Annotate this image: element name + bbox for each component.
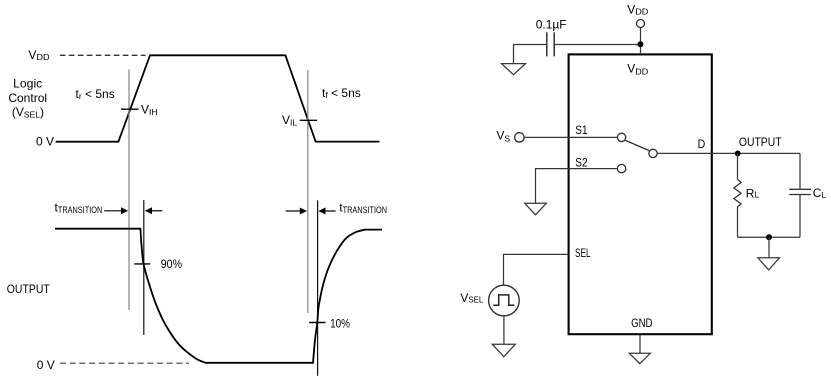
label tTRANSITION left xyxy=(55,201,103,215)
pin label S1 xyxy=(575,123,588,137)
svg-text:Logic: Logic xyxy=(13,76,42,90)
10% tick xyxy=(309,322,325,324)
wire VSEL to ground xyxy=(503,316,505,344)
bypass capacitor 0.1uF plates xyxy=(547,32,554,56)
wire GND pin to ground xyxy=(639,335,641,354)
label tf < 5ns xyxy=(322,86,361,100)
label VDD (logic high level) xyxy=(28,48,49,62)
pulse symbol inside VSEL xyxy=(493,295,514,305)
label 90% xyxy=(161,257,182,271)
svg-text:GND: GND xyxy=(631,316,653,330)
svg-text:0.1µF: 0.1µF xyxy=(536,18,567,32)
label 0 V (logic low) xyxy=(36,135,54,149)
wire S2 to ground xyxy=(536,169,618,203)
label CL xyxy=(813,186,827,200)
svg-text:OUTPUT: OUTPUT xyxy=(739,135,782,149)
tTRANSITION left arrow (pointing right) xyxy=(104,207,128,214)
VIL tick xyxy=(300,119,317,121)
label VDD (supply terminal) xyxy=(627,2,648,16)
svg-text:Control: Control xyxy=(8,91,47,105)
switch S2 throw circle xyxy=(617,164,625,172)
ground (S2) xyxy=(525,203,547,215)
ground (GND pin) xyxy=(629,353,650,363)
label tr < 5ns xyxy=(76,87,115,101)
label 0 V (output low) xyxy=(37,358,55,372)
tTRANSITION left arrow (pointing left) xyxy=(145,207,163,214)
tTRANSITION right arrow (pointing left) xyxy=(318,208,335,215)
switch S1 pole circle xyxy=(617,133,625,141)
junction node load ground xyxy=(766,234,772,240)
label tTRANSITION right xyxy=(339,201,387,215)
label VIL xyxy=(282,113,297,128)
marker line right (10% crossing) xyxy=(317,200,319,375)
output node junction xyxy=(735,151,741,157)
label VIH xyxy=(141,103,158,118)
svg-text:OUTPUT: OUTPUT xyxy=(7,282,51,296)
IC box U1 xyxy=(569,54,712,334)
wire cap right to VDD node xyxy=(554,44,640,46)
svg-text:90%: 90% xyxy=(161,257,182,271)
svg-text:D: D xyxy=(698,137,706,151)
VDD terminal circle xyxy=(637,20,645,28)
ground (bypass cap) xyxy=(502,64,526,75)
pin label VDD (inside box) xyxy=(627,62,648,77)
label 10% xyxy=(330,316,350,330)
wire VDD terminal to box xyxy=(640,28,642,55)
0V dashed reference line (output low) xyxy=(60,362,189,364)
gray timing reference line right xyxy=(307,70,309,313)
svg-text:10%: 10% xyxy=(330,316,350,330)
wire CL bottom plate to bottom rail xyxy=(799,195,801,238)
svg-text:tr < 5ns: tr < 5ns xyxy=(76,87,115,101)
label RL xyxy=(746,186,760,200)
svg-text:tf < 5ns: tf < 5ns xyxy=(322,86,361,100)
resistor RL zigzag xyxy=(734,180,741,207)
pin label GND xyxy=(631,316,653,330)
label VS xyxy=(496,129,510,144)
wire output node down to RL xyxy=(737,153,739,179)
tTRANSITION right arrow (pointing right) xyxy=(286,208,307,215)
VSEL pulse source circle xyxy=(489,285,520,316)
90% tick xyxy=(134,263,150,265)
ground (load) xyxy=(758,258,780,270)
pin label S2 xyxy=(575,155,588,169)
logic control waveform xyxy=(56,55,380,141)
junction node VDD xyxy=(637,41,643,47)
label OUTPUT (circuit) xyxy=(739,135,782,149)
pin label D xyxy=(698,137,706,151)
output waveform xyxy=(55,229,382,363)
VS terminal circle xyxy=(515,133,524,142)
capacitor CL plates xyxy=(789,189,811,194)
pin label SEL xyxy=(575,246,591,260)
bottom rail RL-CL xyxy=(738,236,801,238)
switch D throw circle xyxy=(649,149,657,157)
svg-text:S1: S1 xyxy=(575,123,588,137)
wire RL to bottom rail xyxy=(737,207,739,237)
svg-text:RL: RL xyxy=(746,186,760,200)
VDD dashed reference line xyxy=(60,54,146,56)
label Logic Control (VSEL) xyxy=(8,76,47,119)
svg-text:S2: S2 xyxy=(575,155,588,169)
label 0.1uF xyxy=(536,18,567,32)
wire VS to S1 switch pole xyxy=(524,136,617,138)
marker line left (90% crossing) xyxy=(143,200,145,335)
gray timing reference line left xyxy=(128,70,130,311)
label VSEL xyxy=(460,291,483,305)
wire CL branch down to top plate xyxy=(799,153,801,189)
ground (VSEL) xyxy=(492,344,515,357)
VIH tick xyxy=(121,108,139,110)
svg-text:SEL: SEL xyxy=(575,246,591,260)
svg-text:0 V: 0 V xyxy=(36,135,54,149)
svg-text:0 V: 0 V xyxy=(37,358,55,372)
wire cap left to ground xyxy=(514,45,547,64)
label OUTPUT (waveform) xyxy=(7,282,51,296)
wire SEL to VSEL source xyxy=(504,254,569,285)
switch arm S1 to D xyxy=(625,140,649,150)
wire D to output node and CL branch xyxy=(657,152,800,154)
wire load rail to ground xyxy=(768,237,770,257)
